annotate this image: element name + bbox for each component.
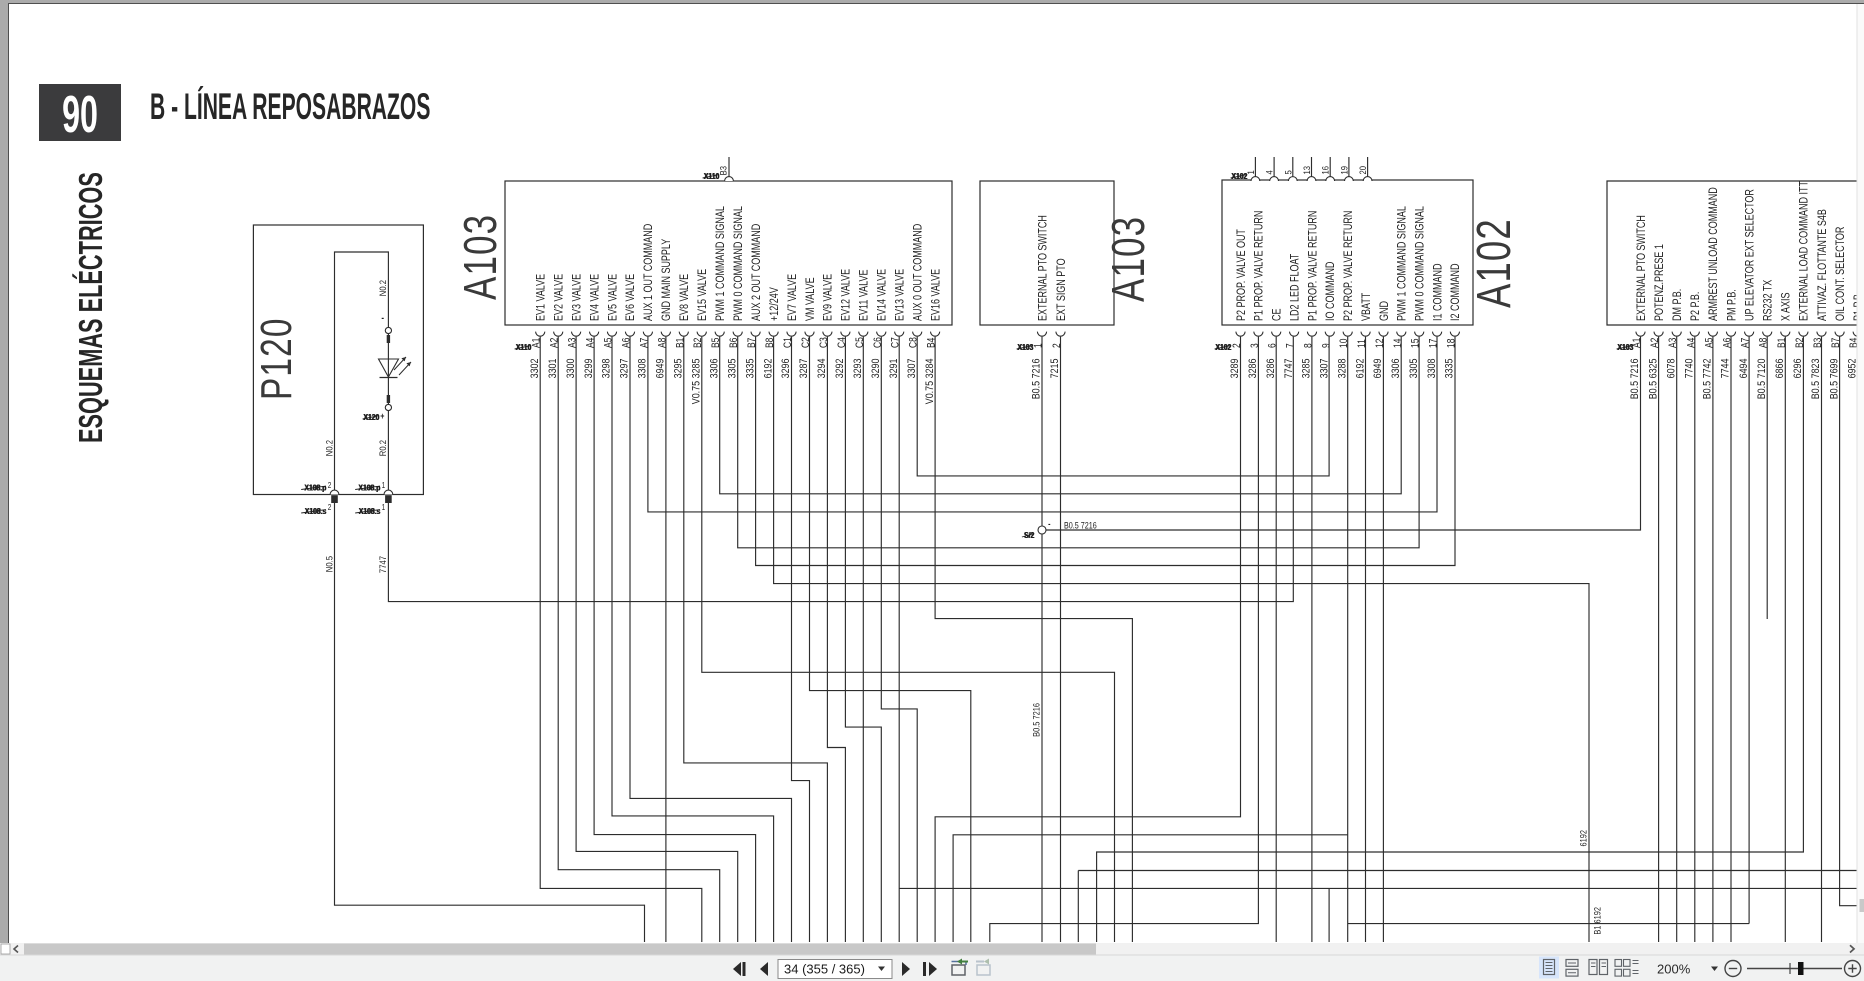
svg-text:3308: 3308 <box>1426 358 1438 378</box>
svg-text:+: + <box>380 411 384 421</box>
pin 6 of A102 / signal CE / wire 3286 <box>1265 309 1284 379</box>
svg-text:EV5 VALVE: EV5 VALVE <box>606 274 620 321</box>
svg-text:3306: 3306 <box>1390 358 1402 378</box>
svg-text:C4: C4 <box>836 337 848 348</box>
svg-text:34 (355 / 365): 34 (355 / 365) <box>784 962 865 977</box>
svg-text:EV3 VALVE: EV3 VALVE <box>570 274 584 321</box>
svg-text:A6: A6 <box>621 338 633 348</box>
svg-text:6494: 6494 <box>1738 358 1750 378</box>
svg-text:VBATT: VBATT <box>1360 292 1374 321</box>
pin A1 of right ECU / signal EXTERNAL PTO SWITCH / wire B0.5 7216 <box>1629 215 1648 399</box>
svg-text:P2 PROP. VALVE OUT: P2 PROP. VALVE OUT <box>1235 229 1249 321</box>
svg-text:3: 3 <box>1249 343 1261 348</box>
svg-text:3292: 3292 <box>834 358 846 378</box>
wire B0.5 7699 right ECU B7 <box>1840 337 1864 906</box>
pin C2 of A103 / signal VM VALVE / wire 3287 <box>798 277 817 378</box>
connector X103 label at A103-2 pin row <box>1017 342 1034 352</box>
horizontal scrollbar <box>0 943 1864 955</box>
svg-text:POTENZ.PRESE 1: POTENZ.PRESE 1 <box>1653 244 1667 321</box>
svg-text:V0.75 3285: V0.75 3285 <box>691 358 703 404</box>
pin 18 of A102 / signal I2 COMMAND / wire 3335 <box>1444 263 1463 378</box>
pin A3 of right ECU / signal DM P.B. / wire 6078 <box>1666 289 1685 379</box>
svg-text:3335: 3335 <box>744 358 756 378</box>
svg-text:6192: 6192 <box>762 358 774 378</box>
svg-text:6078: 6078 <box>1666 358 1678 378</box>
svg-text:B6: B6 <box>728 338 740 348</box>
layout icon book view <box>1615 960 1639 977</box>
pin A4 of A103 / signal EV4 VALVE / wire 3299 <box>583 274 602 379</box>
svg-text:I2 COMMAND: I2 COMMAND <box>1449 263 1463 321</box>
ECU A103 (valve module) box <box>454 181 952 325</box>
svg-text:A6: A6 <box>1722 338 1734 348</box>
connector X102 label top <box>1231 171 1248 181</box>
svg-text:A103: A103 <box>1102 216 1154 302</box>
pin A4 of right ECU / signal P2 P.B. / wire 7740 <box>1684 292 1703 379</box>
svg-text:R0.2: R0.2 <box>377 440 388 456</box>
pin A5 of right ECU / signal ARMREST UNLOAD COMMAND / wire B0.5 7742 <box>1702 187 1721 399</box>
svg-text:DM P.B.: DM P.B. <box>1671 289 1685 321</box>
svg-text:EV8 VALVE: EV8 VALVE <box>678 274 692 321</box>
wire 3286 A102-6 <box>1275 337 1277 942</box>
wire 3287 A103-C2 <box>810 337 971 942</box>
ECU A103 (PTO section) box <box>980 181 1154 325</box>
label N0.5 <box>323 556 334 572</box>
svg-text:I1 COMMAND: I1 COMMAND <box>1431 263 1445 321</box>
svg-text:PWM 1 COMMAND SIGNAL: PWM 1 COMMAND SIGNAL <box>714 206 728 321</box>
svg-text:2: 2 <box>1231 343 1243 348</box>
pin A5 of A103 / signal EV5 VALVE / wire 3298 <box>601 274 620 379</box>
svg-text:B1: B1 <box>674 338 686 348</box>
wire N0.5 from X108.2 <box>335 503 645 942</box>
svg-text:18: 18 <box>1446 339 1458 348</box>
label X120 <box>363 412 380 422</box>
svg-text:2: 2 <box>1051 343 1063 348</box>
svg-text:6949: 6949 <box>1372 358 1384 378</box>
svg-text:GND: GND <box>1378 301 1392 321</box>
wire 6494 right ECU A7 <box>1748 337 1750 924</box>
svg-text:3285: 3285 <box>1301 358 1313 378</box>
svg-text:B0.5 6325: B0.5 6325 <box>1647 358 1659 399</box>
svg-text:B0.5 7742: B0.5 7742 <box>1702 358 1714 399</box>
svg-text:B7: B7 <box>746 338 758 348</box>
svg-text:6866: 6866 <box>1774 358 1786 378</box>
pin 9 of A102 / signal IO COMMAND / wire 3307 <box>1319 261 1338 378</box>
layout icon facing <box>1589 960 1608 975</box>
svg-text:3335: 3335 <box>1444 358 1456 378</box>
svg-text:GND MAIN SUPPLY: GND MAIN SUPPLY <box>660 239 674 321</box>
wire bus y870 line <box>1078 871 1859 943</box>
toolbar nav: previous page <box>760 962 768 976</box>
wire B0.5 6325 right ECU A2 <box>1658 337 1660 942</box>
zoom slider <box>1747 962 1842 975</box>
svg-text:ARMREST UNLOAD COMMAND: ARMREST UNLOAD COMMAND <box>1707 187 1721 321</box>
svg-text:B1: B1 <box>1776 338 1788 348</box>
zoom out button <box>1725 961 1741 977</box>
svg-text:P2 PROP. VALVE RETURN: P2 PROP. VALVE RETURN <box>1342 211 1356 321</box>
svg-text:AUX 2 OUT COMMAND: AUX 2 OUT COMMAND <box>750 223 764 321</box>
connector X102 label at pin row <box>1215 342 1232 352</box>
wire 3307 A103-C8 to A102-9 <box>917 337 1329 476</box>
svg-text:A7: A7 <box>1740 338 1752 348</box>
svg-text:B5: B5 <box>710 338 722 348</box>
svg-text:6: 6 <box>1267 343 1279 348</box>
pin A7 of A103 / signal AUX 1 OUT COMMAND / wire 3308 <box>637 223 656 378</box>
wire 3292 A103-C4 <box>845 337 881 942</box>
wire 3308 A103-A7 to A102-17 <box>648 337 1437 512</box>
layout icon single (active) <box>1539 957 1559 979</box>
svg-text:12: 12 <box>1374 339 1386 348</box>
connector X108 pins under P120 <box>328 480 393 512</box>
svg-text:3290: 3290 <box>870 358 882 378</box>
wire V0.75 3284 A103-B4 <box>935 337 1132 942</box>
svg-text:LD2 LED FLOAT: LD2 LED FLOAT <box>1288 253 1302 321</box>
svg-text:RS232 TX: RS232 TX <box>1761 280 1775 321</box>
wire 3290 A103-C6 <box>881 337 917 942</box>
svg-text:7215: 7215 <box>1049 358 1061 378</box>
svg-text:3300: 3300 <box>565 358 577 378</box>
label R0.2 (right wire) <box>377 440 388 456</box>
wire 3285 A102-8 <box>1311 337 1313 942</box>
wire 3289 A102-2 <box>935 337 1240 942</box>
svg-text:11: 11 <box>1356 339 1368 348</box>
wire B0.5 7216 A103-2 pin1 <box>1041 337 1043 942</box>
wire 3296 A103-C1 <box>792 337 810 942</box>
svg-text:N0.2: N0.2 <box>323 440 334 456</box>
svg-text:3295: 3295 <box>673 358 685 378</box>
svg-text:3286: 3286 <box>1265 358 1277 378</box>
svg-text:B3: B3 <box>718 166 729 176</box>
toolbar nav: next page <box>902 962 910 976</box>
svg-text:A3: A3 <box>1667 338 1679 348</box>
svg-text:C2: C2 <box>800 337 812 348</box>
pin 11 of A102 / signal VBATT / wire 6192 <box>1354 292 1373 378</box>
connector X103 label at right ECU pin row <box>1617 342 1634 352</box>
pin 3 of A102 / signal P1 PROP. VALVE RETURN / wire 3286 <box>1247 211 1266 379</box>
svg-text:ESQUEMAS ELÉCTRICOS: ESQUEMAS ELÉCTRICOS <box>72 172 109 443</box>
toolbar page box <box>778 960 892 979</box>
svg-text:9: 9 <box>1320 343 1332 348</box>
wire 7744 right ECU A6 <box>1730 337 1732 942</box>
svg-text:CE: CE <box>1270 309 1284 321</box>
svg-text:EV2 VALVE: EV2 VALVE <box>552 274 566 321</box>
svg-text:3286: 3286 <box>1247 358 1259 378</box>
pin C5 of A103 / signal EV11 VALVE / wire 3293 <box>852 270 871 379</box>
svg-text:A7: A7 <box>639 338 651 348</box>
wire 3298 A103-A5 <box>612 337 774 942</box>
wire V0.75 3285 A103-B2 <box>702 337 1115 942</box>
svg-text:EXTERNAL PTO SWITCH: EXTERNAL PTO SWITCH <box>1635 215 1649 321</box>
svg-text:EXTERNAL LOAD COMMAND ITT: EXTERNAL LOAD COMMAND ITT <box>1798 181 1812 321</box>
label 6192 on right bus <box>1578 830 1589 847</box>
splice node S/2 <box>1022 519 1051 540</box>
svg-text:A5: A5 <box>603 338 615 348</box>
svg-text:B0.5 7699: B0.5 7699 <box>1828 358 1840 399</box>
svg-text:C3: C3 <box>818 337 830 348</box>
pin B5 of A103 / signal PWM 1 COMMAND SIGNAL / wire 3306 <box>709 206 728 378</box>
svg-text:3307: 3307 <box>906 358 918 378</box>
svg-text:A4: A4 <box>1685 337 1697 348</box>
wire B0.5 7120 right ECU A8 <box>1766 337 1768 619</box>
pin C4 of A103 / signal EV12 VALVE / wire 3292 <box>834 269 853 379</box>
svg-text:A2: A2 <box>1649 338 1661 348</box>
wire 3288 A102-10 <box>953 337 1749 942</box>
svg-text:1: 1 <box>1033 343 1045 348</box>
svg-text:2: 2 <box>328 480 332 490</box>
toolbar history back icon <box>952 959 969 976</box>
svg-text:P1 PROP. VALVE RETURN: P1 PROP. VALVE RETURN <box>1253 211 1267 321</box>
svg-text:B0.5 7216: B0.5 7216 <box>1031 358 1043 399</box>
svg-text:A1: A1 <box>531 338 543 348</box>
svg-text:3296: 3296 <box>780 358 792 378</box>
svg-text:3291: 3291 <box>888 358 900 378</box>
svg-text:B0.5 7216: B0.5 7216 <box>1629 358 1641 399</box>
wire 3286 A102-3 <box>990 337 1259 942</box>
svg-text:3299: 3299 <box>583 358 595 378</box>
wire B0.5 7823 right ECU B3 <box>1821 337 1823 942</box>
svg-text:6949: 6949 <box>655 358 667 378</box>
wire 3299 A103-A4 <box>594 337 756 942</box>
pin B4 of A103 / signal EV16 VALVE / wire V0.75 3284 <box>924 269 943 404</box>
svg-text:PWM 0 COMMAND SIGNAL: PWM 0 COMMAND SIGNAL <box>1413 206 1427 321</box>
svg-text:3308: 3308 <box>637 358 649 378</box>
label N0.2 (left wire) <box>323 440 334 456</box>
svg-text:X AXIS: X AXIS <box>1779 293 1793 321</box>
svg-text:UP ELEVATOR EXT SELECTOR: UP ELEVATOR EXT SELECTOR <box>1743 189 1757 321</box>
pin 12 of A102 / signal GND / wire 6949 <box>1372 301 1391 379</box>
wire 3305 A103-B6 to A102-15 <box>738 337 1419 548</box>
svg-text:P1 PROP. VALVE RETURN: P1 PROP. VALVE RETURN <box>1306 211 1320 321</box>
svg-text:N0.2: N0.2 <box>377 280 388 296</box>
pin B8 of A103 / signal +12/24V / wire 6192 <box>762 286 781 378</box>
svg-text:A8: A8 <box>657 338 669 348</box>
svg-text:A4: A4 <box>585 337 597 348</box>
wire 6192 A102-11 <box>1365 337 1367 942</box>
svg-text:PWM 1 COMMAND SIGNAL: PWM 1 COMMAND SIGNAL <box>1395 206 1409 321</box>
svg-text:90: 90 <box>62 86 98 144</box>
svg-text:7740: 7740 <box>1684 358 1696 378</box>
svg-text:P2 P.B.: P2 P.B. <box>1689 292 1703 321</box>
svg-text:ATTIVAZ. FLOTTANTE S4B: ATTIVAZ. FLOTTANTE S4B <box>1816 209 1830 321</box>
svg-text:+12/24V: +12/24V <box>768 286 782 321</box>
svg-text:2: 2 <box>328 502 332 512</box>
wire 6949 A103-A8 <box>665 337 667 942</box>
pin B6 of A103 / signal PWM 0 COMMAND SIGNAL / wire 3305 <box>727 206 746 378</box>
wire 3294 A103-C3 <box>827 337 845 942</box>
svg-text:3288: 3288 <box>1337 358 1349 378</box>
svg-text:EV15 VALVE: EV15 VALVE <box>696 269 710 321</box>
svg-text:EXT SIGN PTO: EXT SIGN PTO <box>1055 258 1069 321</box>
svg-text:-: - <box>381 312 384 323</box>
svg-text:17: 17 <box>1428 339 1440 348</box>
layout icon continuous <box>1566 960 1578 977</box>
svg-text:3287: 3287 <box>798 358 810 378</box>
svg-text:7744: 7744 <box>1720 358 1732 378</box>
svg-text:P120: P120 <box>253 317 301 400</box>
zoom in button <box>1845 961 1861 977</box>
pin 2 of A102 / signal P2 PROP. VALVE OUT / wire 3289 <box>1229 229 1248 379</box>
svg-text:3293: 3293 <box>852 358 864 378</box>
toolbar history fwd icon (disabled) <box>976 959 990 976</box>
svg-text:EV4 VALVE: EV4 VALVE <box>588 274 602 321</box>
svg-text:EV1 VALVE: EV1 VALVE <box>534 274 548 321</box>
pin B3 of right ECU / signal ATTIVAZ. FLOTTANTE S4B / wire B0.5 7823 <box>1810 209 1829 399</box>
svg-text:3297: 3297 <box>619 358 631 378</box>
svg-text:1: 1 <box>382 480 386 490</box>
svg-text:N0.5: N0.5 <box>323 556 334 572</box>
header page-number badge 90 <box>39 84 121 144</box>
pin 8 of A102 / signal P1 PROP. VALVE RETURN / wire 3285 <box>1301 211 1320 379</box>
toolbar nav: first page <box>733 962 746 976</box>
svg-text:A103: A103 <box>454 214 506 300</box>
svg-text:6192: 6192 <box>1354 358 1366 378</box>
wire 3301 A103-A2 <box>558 337 720 942</box>
svg-text:3298: 3298 <box>601 358 613 378</box>
svg-text:A102: A102 <box>1467 218 1521 308</box>
svg-text:B1 6192: B1 6192 <box>1592 907 1603 935</box>
svg-text:3294: 3294 <box>816 358 828 378</box>
wire 3295 A103-B1 <box>684 337 828 942</box>
pin A8 of A103 / signal GND MAIN SUPPLY / wire 6949 <box>655 239 674 379</box>
svg-text:15: 15 <box>1410 339 1422 348</box>
connector P120 box <box>253 225 424 495</box>
wire 3293 A103-C5 <box>862 337 864 942</box>
pin B1 of A103 / signal EV8 VALVE / wire 3295 <box>673 274 692 379</box>
wire 3335 A103-B7 to A102-18 <box>756 337 1455 566</box>
svg-text:B4: B4 <box>926 337 938 348</box>
toolbar nav: last page <box>923 962 937 976</box>
svg-text:20: 20 <box>1357 166 1368 175</box>
svg-text:PWM 0 COMMAND SIGNAL: PWM 0 COMMAND SIGNAL <box>732 206 746 321</box>
pin A2 of right ECU / signal POTENZ.PRESE 1 / wire B0.5 6325 <box>1647 244 1666 399</box>
svg-text:AUX 0 OUT COMMAND: AUX 0 OUT COMMAND <box>911 223 925 321</box>
svg-text:B0.5 7120: B0.5 7120 <box>1756 358 1768 399</box>
svg-text:B0.5 7216: B0.5 7216 <box>1031 703 1042 737</box>
pin A8 of right ECU / signal RS232 TX / wire B0.5 7120 <box>1756 280 1775 400</box>
pin 15 of A102 / signal PWM 0 COMMAND SIGNAL / wire 3305 <box>1408 206 1427 378</box>
wire 3300 A103-A3 <box>576 337 738 942</box>
wire bus y888 to page edge <box>899 888 1864 942</box>
label 7747 (P120 wire) <box>377 556 388 573</box>
svg-text:3305: 3305 <box>727 358 739 378</box>
LED lamp in P120 <box>379 312 412 421</box>
svg-text:16: 16 <box>1320 166 1331 175</box>
svg-text:6192: 6192 <box>1578 830 1589 847</box>
wire 7747 from X108.1 to A102-7 <box>388 337 1293 602</box>
wire 6952 right ECU B4 <box>1857 337 1859 942</box>
ECU A102 box <box>1222 180 1521 325</box>
svg-text:13: 13 <box>1301 166 1312 175</box>
label B1 6192 at bottom <box>1592 907 1603 935</box>
pin B7 of A103 / signal AUX 2 OUT COMMAND / wire 3335 <box>744 223 763 378</box>
svg-text:EV9 VALVE: EV9 VALVE <box>822 274 836 321</box>
header title <box>150 86 430 128</box>
pin 10 of A102 / signal P2 PROP. VALVE RETURN / wire 3288 <box>1337 211 1356 379</box>
wire 3302 A103-A1 <box>540 337 702 942</box>
svg-text:OIL CONT. SELECTOR: OIL CONT. SELECTOR <box>1834 226 1848 321</box>
svg-text:A2: A2 <box>549 338 561 348</box>
top pin B3 of A103 with X110 label <box>703 157 734 181</box>
svg-text:AUX 1 OUT COMMAND: AUX 1 OUT COMMAND <box>642 223 656 321</box>
svg-text:3305: 3305 <box>1408 358 1420 378</box>
left vertical chapter title <box>72 172 109 443</box>
wire 7740 right ECU A4 <box>1694 337 1696 942</box>
svg-text:3289: 3289 <box>1229 358 1241 378</box>
svg-text:B2: B2 <box>692 338 704 348</box>
svg-text:4: 4 <box>1264 170 1275 174</box>
svg-text:14: 14 <box>1392 338 1404 348</box>
vertical scrollbar <box>1857 4 1864 943</box>
wire 3297 A103-A6 <box>630 337 792 942</box>
pin B4 of right ECU / signal P1 P.B. / wire 6952 <box>1847 292 1864 379</box>
label N0.2 (right wire, top) <box>377 280 388 296</box>
svg-text:C6: C6 <box>872 337 884 348</box>
pin C3 of A103 / signal EV9 VALVE / wire 3294 <box>816 274 835 379</box>
wire 7215 A103-2 pin2 <box>1060 337 1062 942</box>
pin A1 of A103 / signal EV1 VALVE / wire 3302 <box>529 274 548 379</box>
svg-text:C1: C1 <box>782 337 794 348</box>
svg-text:3301: 3301 <box>547 358 559 378</box>
svg-text:A3: A3 <box>567 338 579 348</box>
pin A7 of right ECU / signal UP ELEVATOR EXT SELECTOR / wire 6494 <box>1738 189 1757 379</box>
bottom toolbar <box>0 955 1864 981</box>
pin 1 of A103-2 / EXTERNAL PTO SWITCH / wire B0.5 7216 <box>1031 215 1050 399</box>
wire 6296 right ECU B2 <box>1097 337 1804 942</box>
zoom percent <box>1657 962 1718 977</box>
pin 7 of A102 / signal LD2 LED FLOAT / wire 7747 <box>1283 253 1302 378</box>
svg-text:A5: A5 <box>1704 338 1716 348</box>
wire 6078 right ECU A3 <box>1676 337 1678 942</box>
svg-text:V0.75 3284: V0.75 3284 <box>924 358 936 404</box>
svg-text:B - LÍNEA REPOSABRAZOS: B - LÍNEA REPOSABRAZOS <box>150 86 430 128</box>
pin A6 of right ECU / signal PM P.B. / wire 7744 <box>1720 289 1739 378</box>
svg-text:PM P.B.: PM P.B. <box>1725 289 1739 321</box>
svg-text:8: 8 <box>1303 343 1315 348</box>
svg-text:B2: B2 <box>1794 338 1806 348</box>
wire 6949 A102-12 <box>1382 337 1384 942</box>
connector X110 label at pin row <box>515 342 532 352</box>
svg-text:A8: A8 <box>1758 338 1770 348</box>
pin B7 of right ECU / signal OIL CONT. SELECTOR / wire B0.5 7699 <box>1828 226 1847 399</box>
svg-text:B0.5 7823: B0.5 7823 <box>1810 358 1822 399</box>
svg-text:EXTERNAL PTO SWITCH: EXTERNAL PTO SWITCH <box>1036 215 1050 321</box>
svg-text:EV12 VALVE: EV12 VALVE <box>839 269 853 321</box>
wire B0.5 7216 bus to right ECU A1 <box>1046 337 1641 530</box>
svg-text:3302: 3302 <box>529 358 541 378</box>
svg-text:EV16 VALVE: EV16 VALVE <box>929 269 943 321</box>
svg-text:EV11 VALVE: EV11 VALVE <box>857 270 871 321</box>
svg-text:19: 19 <box>1339 166 1350 175</box>
svg-text:10: 10 <box>1338 339 1350 348</box>
svg-text:-: - <box>1048 519 1051 529</box>
svg-text:C8: C8 <box>908 337 920 348</box>
pin C1 of A103 / signal EV7 VALVE / wire 3296 <box>780 274 799 379</box>
wire 3306 A103-B5 to A102-14 <box>720 337 1401 494</box>
pin C6 of A103 / signal EV14 VALVE / wire 3290 <box>870 269 889 379</box>
svg-text:7747: 7747 <box>377 556 388 573</box>
pin A6 of A103 / signal EV6 VALVE / wire 3297 <box>619 274 638 379</box>
right ECU box (cut off at page edge) <box>1607 181 1864 325</box>
labels X108.p / X108.s left pin <box>301 483 327 516</box>
top pins 1,4,5,13,16,19,20 of A102 <box>1245 157 1372 181</box>
pin 14 of A102 / signal PWM 1 COMMAND SIGNAL / wire 3306 <box>1390 206 1409 378</box>
labels X108.p / X108.s right pin <box>355 483 381 516</box>
wire internal P120 loop <box>335 252 389 495</box>
label B0.5 7216 at S/2 <box>1064 521 1097 531</box>
pin C7 of A103 / signal EV13 VALVE / wire 3291 <box>888 269 907 379</box>
pin B2 of A103 / signal EV15 VALVE / wire V0.75 3285 <box>691 269 710 404</box>
svg-text:EV13 VALVE: EV13 VALVE <box>893 269 907 321</box>
svg-text:200%: 200% <box>1657 962 1691 977</box>
